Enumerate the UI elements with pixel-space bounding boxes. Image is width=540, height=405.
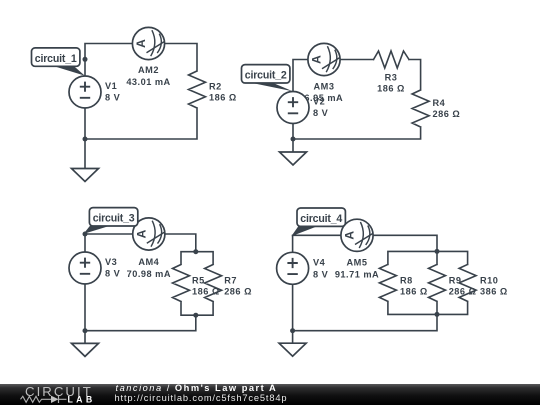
svg-text:R7: R7 xyxy=(224,276,237,286)
svg-text:8 V: 8 V xyxy=(313,269,329,279)
svg-text:V4: V4 xyxy=(313,258,326,268)
svg-text:R5: R5 xyxy=(192,276,205,286)
svg-text:A: A xyxy=(134,39,148,48)
svg-text:AM3: AM3 xyxy=(314,81,335,91)
svg-text:8 V: 8 V xyxy=(313,108,329,118)
svg-text:186 Ω: 186 Ω xyxy=(377,83,405,93)
svg-text:AM2: AM2 xyxy=(138,65,159,75)
svg-text:circuit_1: circuit_1 xyxy=(35,53,77,65)
svg-text:186 Ω: 186 Ω xyxy=(400,286,428,296)
svg-text:43.01 mA: 43.01 mA xyxy=(126,77,170,87)
svg-text:R9: R9 xyxy=(449,275,462,285)
svg-text:V3: V3 xyxy=(105,257,117,267)
svg-text:AM4: AM4 xyxy=(138,257,159,267)
svg-text:70.98 mA: 70.98 mA xyxy=(127,269,171,279)
svg-text:circuit_2: circuit_2 xyxy=(245,70,287,82)
svg-text:V2: V2 xyxy=(313,97,325,107)
svg-text:286 Ω: 286 Ω xyxy=(224,287,252,297)
svg-text:R4: R4 xyxy=(433,98,446,108)
svg-text:186 Ω: 186 Ω xyxy=(192,287,220,297)
svg-text:A: A xyxy=(135,229,149,238)
svg-text:R10: R10 xyxy=(480,275,498,285)
svg-text:circuit_3: circuit_3 xyxy=(93,213,135,225)
svg-text:91.71 mA: 91.71 mA xyxy=(335,269,379,279)
svg-text:tanciona / Ohm's Law part A: tanciona / Ohm's Law part A xyxy=(116,383,278,393)
svg-text:A: A xyxy=(310,55,324,64)
svg-text:186 Ω: 186 Ω xyxy=(209,92,237,102)
svg-text:286 Ω: 286 Ω xyxy=(449,286,477,296)
svg-text:8 V: 8 V xyxy=(105,93,121,103)
svg-text:V1: V1 xyxy=(105,81,117,91)
svg-text:R3: R3 xyxy=(385,72,398,82)
svg-text:http://circuitlab.com/c5fsh7ce: http://circuitlab.com/c5fsh7ce5t84p xyxy=(115,393,288,403)
svg-text:R8: R8 xyxy=(400,275,413,285)
svg-text:8 V: 8 V xyxy=(105,269,121,279)
svg-text:A: A xyxy=(343,231,357,240)
svg-text:286 Ω: 286 Ω xyxy=(433,109,461,119)
svg-text:386 Ω: 386 Ω xyxy=(480,286,508,296)
svg-text:circuit_4: circuit_4 xyxy=(300,213,342,225)
svg-text:LAB: LAB xyxy=(68,395,96,405)
svg-text:AM5: AM5 xyxy=(347,258,368,268)
svg-text:R2: R2 xyxy=(209,81,222,91)
